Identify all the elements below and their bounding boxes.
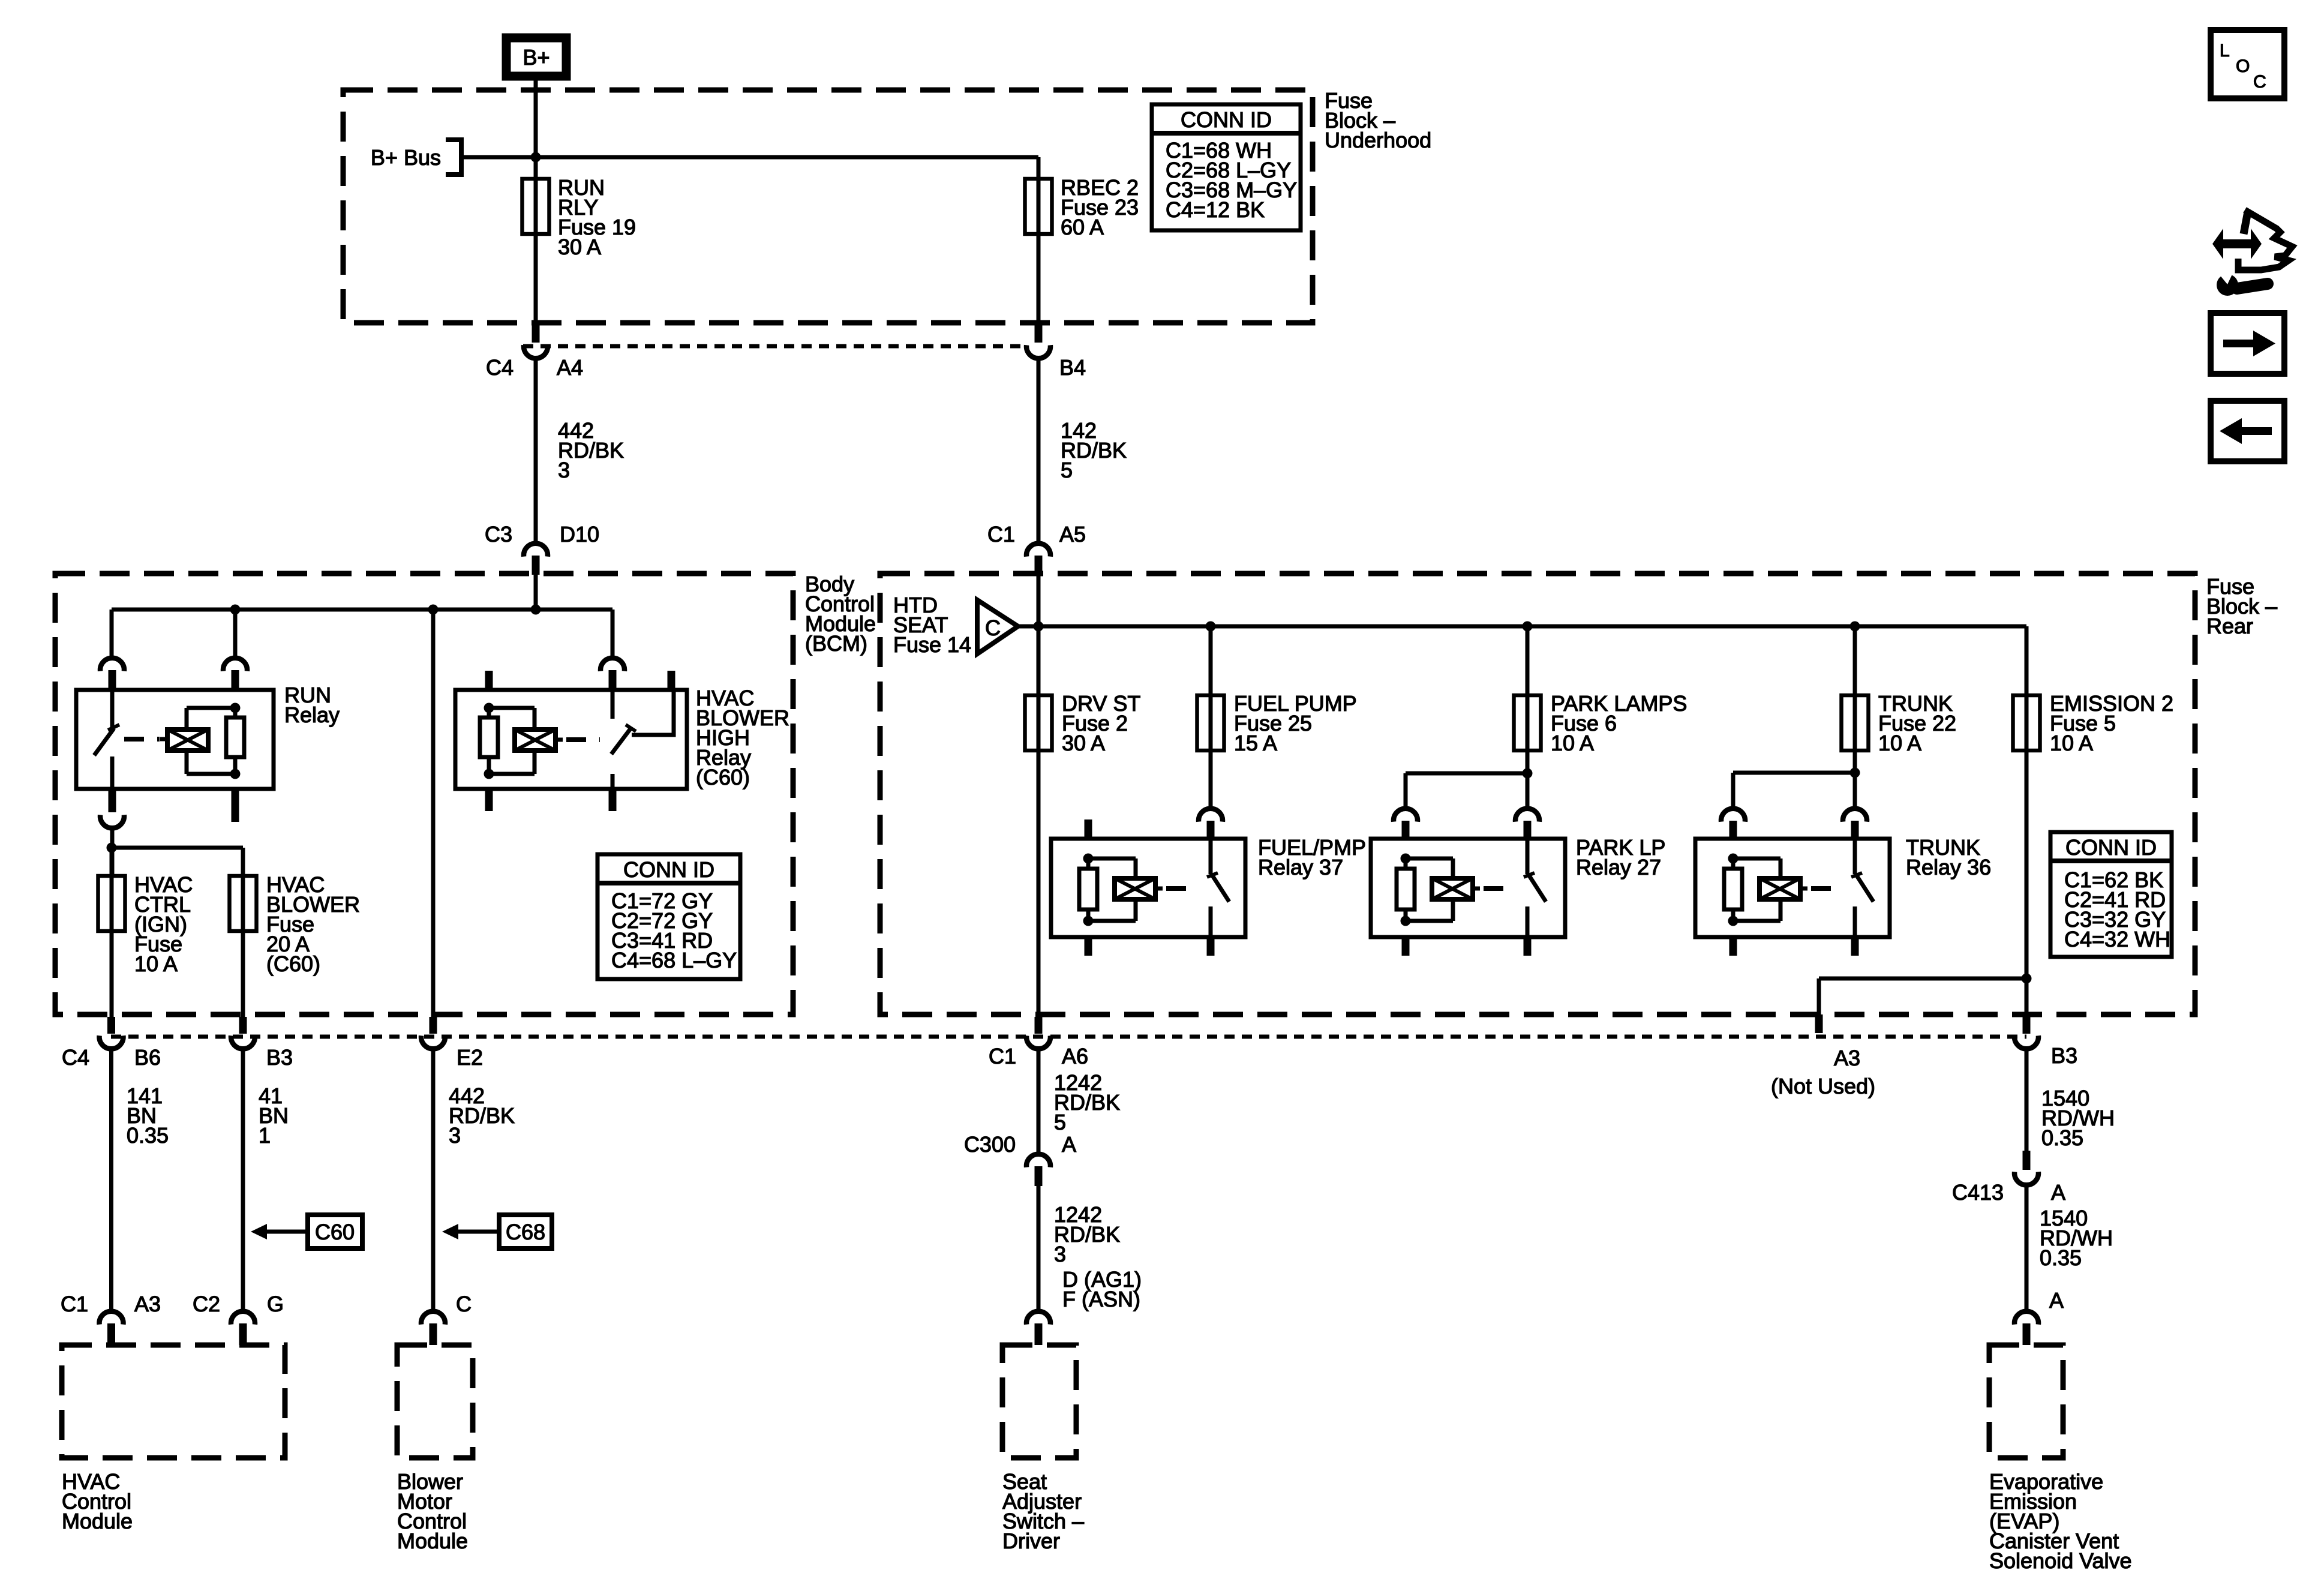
svg-text:C4=12 BK: C4=12 BK (1166, 197, 1265, 222)
svg-text:0.35: 0.35 (2041, 1125, 2083, 1150)
svg-text:CONN ID: CONN ID (2065, 835, 2157, 860)
svg-text:0.35: 0.35 (2040, 1245, 2082, 1270)
wire RUN relay to fuses (107, 827, 244, 876)
fuel relay resistor (1079, 858, 1097, 921)
blower motor control module box (397, 1345, 473, 1458)
svg-text:B+ Bus: B+ Bus (371, 145, 441, 170)
svg-text:60 A: 60 A (1061, 215, 1104, 239)
connector C4/A4 (486, 325, 583, 380)
svg-text:C300: C300 (964, 1132, 1016, 1157)
wire 142 RD/BK 5 (1038, 356, 1127, 542)
label Body Control Module (BCM) (805, 572, 876, 656)
svg-text:B3: B3 (2051, 1043, 2077, 1068)
wire 1540 RD/WH 0.35 upper (2026, 1046, 2115, 1152)
RUN relay resistor (226, 708, 244, 774)
body control module dashed box (55, 574, 793, 1014)
svg-text:Driver: Driver (1002, 1529, 1060, 1553)
HVAC relay bottom stubs (485, 789, 617, 811)
svg-text:Module: Module (62, 1509, 133, 1533)
park relay resistor (1397, 858, 1415, 921)
fuse block underhood dashed box (343, 90, 1313, 323)
label D (AG1) F (ASN) (1062, 1267, 1142, 1311)
svg-text:O: O (2236, 56, 2250, 76)
svg-text:Relay 37: Relay 37 (1258, 855, 1343, 879)
svg-text:3: 3 (558, 458, 570, 482)
connector C1/A5 (987, 522, 1086, 575)
HVAC relay resistor (480, 708, 498, 774)
svg-text:C: C (456, 1292, 472, 1316)
svg-text:0.35: 0.35 (127, 1123, 169, 1148)
svg-text:B4: B4 (1059, 355, 1086, 380)
connector E2 (421, 1017, 483, 1070)
conn id table underhood (1152, 104, 1301, 230)
wire E2 branch (431, 610, 436, 1017)
park relay coil links (1401, 854, 1454, 926)
svg-text:E2: E2 (457, 1045, 483, 1070)
svg-text:5: 5 (1054, 1110, 1066, 1134)
wire 442 RD/BK 3 (536, 356, 624, 542)
svg-text:10 A: 10 A (1551, 731, 1594, 755)
svg-text:C: C (2253, 72, 2266, 92)
svg-text:3: 3 (449, 1123, 461, 1148)
svg-text:Fuse 14: Fuse 14 (893, 632, 971, 657)
svg-text:C3: C3 (485, 522, 512, 547)
forward arrow icon (2211, 313, 2284, 374)
fuse PARK LAMPS Fuse 6 (1514, 691, 1688, 755)
label HVAC BLOWER HIGH Relay (C60) (696, 686, 789, 789)
svg-text:C60: C60 (315, 1220, 355, 1244)
park relay bottom stubs (1402, 937, 1532, 956)
svg-text:10 A: 10 A (2050, 731, 2093, 755)
svg-text:D10: D10 (560, 522, 599, 547)
fuel relay coil links (1083, 854, 1136, 926)
HVAC relay coil (515, 730, 563, 751)
wire trunk branch (1853, 626, 1857, 807)
wire 1242 RD/BK 5 (1038, 1046, 1120, 1152)
label TRUNK Relay 36 (1906, 835, 1991, 879)
svg-text:3: 3 (1054, 1242, 1066, 1266)
wire emission branch (2025, 626, 2029, 1017)
fuse TRUNK Fuse 22 (1842, 691, 1957, 755)
wire 141 BN 0.35 (112, 1046, 169, 1310)
trunk relay coil dash (1811, 886, 1842, 891)
svg-text:B+: B+ (523, 45, 550, 70)
svg-text:B3: B3 (266, 1045, 293, 1070)
connector C300/A (964, 1132, 1076, 1186)
B+ bus bracket (446, 140, 461, 175)
label HTD SEAT Fuse 14 (893, 593, 971, 657)
svg-text:1: 1 (259, 1123, 271, 1148)
svg-text:G: G (267, 1292, 284, 1316)
RUN relay bottom pins (100, 789, 239, 828)
stub A3 not used (1771, 1014, 1875, 1098)
evap solenoid box (1989, 1345, 2063, 1458)
relay PARK LP box (1371, 839, 1565, 937)
trunk relay switch (1851, 839, 1873, 937)
svg-text:C4: C4 (486, 355, 514, 380)
RUN relay pin domes (100, 658, 247, 690)
label B+ Bus (371, 145, 441, 170)
svg-text:10 A: 10 A (134, 951, 178, 976)
svg-text:C: C (985, 616, 1001, 640)
wire park branch (1526, 626, 1530, 807)
trunk relay coil links (1728, 854, 1781, 926)
svg-text:(Not Used): (Not Used) (1771, 1074, 1875, 1098)
svg-text:A: A (2049, 1288, 2064, 1313)
label Fuse Block - Underhood (1325, 88, 1431, 152)
svg-text:Solenoid Valve: Solenoid Valve (1989, 1548, 2132, 1573)
svg-text:Relay: Relay (284, 703, 340, 727)
label EVAP Canister Vent Solenoid Valve (1989, 1469, 2132, 1573)
RUN relay coil (160, 730, 208, 751)
connector arrow C60 (251, 1215, 362, 1248)
label FUEL/PMP Relay 37 (1258, 835, 1366, 879)
fuse RUN RLY Fuse 19 (523, 175, 636, 259)
connector C3/D10 (485, 522, 599, 575)
fuel relay coil dash (1166, 886, 1197, 891)
fuel relay switch (1207, 839, 1229, 937)
svg-text:5: 5 (1061, 458, 1073, 482)
label Blower Motor Control Module (397, 1469, 468, 1553)
park relay switch (1524, 839, 1546, 937)
svg-text:Relay 36: Relay 36 (1906, 855, 1991, 879)
svg-text:C1: C1 (987, 522, 1015, 547)
label pin A evap (2049, 1288, 2064, 1313)
back arrow icon (2211, 401, 2284, 461)
fuse block rear dashed box (880, 574, 2195, 1014)
svg-text:A3: A3 (134, 1292, 161, 1316)
connector B3 rear (2014, 1017, 2077, 1068)
fuse HVAC CTRL (IGN) (98, 872, 193, 976)
relay TRUNK box (1695, 839, 1890, 937)
svg-text:CONN ID: CONN ID (1181, 107, 1272, 132)
RUN relay coil links (187, 703, 241, 779)
relay HVAC BLOWER HIGH box (455, 690, 687, 789)
svg-text:C1: C1 (61, 1292, 88, 1316)
connector C4/B6 (62, 1017, 161, 1070)
svg-text:(BCM): (BCM) (805, 631, 867, 656)
wire C3 into BCM (534, 574, 538, 610)
svg-text:A6: A6 (1062, 1044, 1088, 1068)
HVAC relay switch pin dome (600, 658, 624, 690)
wire 1540 RD/WH 0.35 lower (2026, 1183, 2113, 1310)
diagnostic car-wrench icon (2212, 210, 2292, 296)
relay FUEL/PMP box (1051, 839, 1245, 937)
wire main into rear block (1037, 574, 1041, 1017)
trunk relay bottom stubs (1730, 937, 1859, 956)
svg-text:C4=68 L–GY: C4=68 L–GY (611, 948, 737, 972)
svg-text:Module: Module (397, 1529, 468, 1553)
svg-text:(C60): (C60) (696, 765, 750, 789)
wire fuse6 to relay (1406, 769, 1533, 807)
wire A3 jog (1819, 978, 2026, 1014)
trunk relay pin domes (1721, 809, 1867, 839)
park relay coil (1432, 878, 1480, 899)
connector C413/A (1952, 1151, 2065, 1205)
fuse RBEC 2 Fuse 23 (1025, 175, 1139, 239)
wire bus to RBEC fuse (1037, 157, 1041, 327)
B+ bus wire (461, 152, 1038, 163)
seat adjuster switch box (1002, 1345, 1076, 1458)
svg-text:C4: C4 (62, 1045, 89, 1070)
trunk relay coil (1759, 878, 1807, 899)
conn id table BCM (597, 854, 740, 979)
wire fuse5 down (2022, 974, 2032, 984)
fuel relay pin dome (1085, 809, 1223, 839)
svg-text:C4=32 WH: C4=32 WH (2064, 927, 2170, 951)
connector evap valve (2014, 1311, 2038, 1345)
svg-text:Relay 27: Relay 27 (1576, 855, 1661, 879)
label HVAC Control Module (62, 1469, 133, 1533)
svg-text:A: A (1062, 1132, 1076, 1157)
svg-text:A: A (2051, 1180, 2065, 1205)
svg-text:Rear: Rear (2206, 614, 2253, 638)
fuse EMISSION 2 Fuse 5 (2013, 691, 2174, 755)
park relay coil dash (1484, 886, 1515, 891)
connector C2/G (193, 1292, 284, 1345)
HVAC relay dead pins (485, 671, 675, 690)
connector C1/A6 (989, 1017, 1088, 1068)
wire fuel pump branch (1209, 626, 1213, 807)
svg-text:A4: A4 (557, 355, 583, 380)
wire fuse22 to relay (1733, 768, 1860, 807)
label Fuse Block - Rear (2206, 574, 2277, 638)
svg-text:C68: C68 (506, 1220, 545, 1244)
wire fuses to BCM bottom (112, 848, 243, 1017)
fuse DRV ST Fuse 2 (1025, 691, 1141, 755)
wire 41 BN 1 (243, 1046, 289, 1310)
svg-text:30 A: 30 A (558, 235, 601, 259)
connector C blower (421, 1292, 472, 1345)
HVAC control module box (62, 1345, 285, 1458)
label Seat Adjuster Switch - Driver (1002, 1469, 1084, 1553)
label RUN Relay (284, 683, 340, 727)
fuse HVAC BLOWER (230, 872, 361, 976)
svg-text:10 A: 10 A (1878, 731, 1921, 755)
svg-text:15 A: 15 A (1234, 731, 1277, 755)
wire 442 RD/BK 3 lower (433, 1046, 515, 1310)
fuse FUEL PUMP Fuse 25 (1197, 691, 1357, 755)
fuel relay coil (1115, 878, 1163, 899)
connector B3 bcm (231, 1017, 293, 1070)
LOC locator icon (2211, 30, 2284, 98)
HVAC relay coil dash (566, 737, 600, 742)
connector dashed line bottom (111, 1035, 2026, 1039)
svg-text:(C60): (C60) (266, 951, 320, 976)
connector arrow C68 (442, 1215, 552, 1248)
HTD SEAT triangle (977, 600, 1018, 654)
RUN relay switch (94, 690, 119, 789)
svg-text:C2: C2 (193, 1292, 220, 1316)
wire B+ to bus (534, 76, 538, 327)
BCM internal bus (112, 605, 612, 656)
connector B4 (1026, 325, 1086, 380)
svg-text:CONN ID: CONN ID (623, 857, 714, 882)
svg-text:C1: C1 (989, 1044, 1016, 1068)
HVAC relay switch (611, 690, 674, 789)
svg-text:30 A: 30 A (1062, 731, 1105, 755)
svg-text:L: L (2220, 41, 2230, 61)
conn id table rear (2050, 832, 2172, 957)
B+ power symbol (506, 38, 566, 76)
relay RUN box (76, 690, 274, 789)
connector seat switch (1026, 1311, 1050, 1345)
svg-text:F (ASN): F (ASN) (1062, 1287, 1140, 1311)
park relay pin domes (1394, 809, 1539, 839)
connector dashed line C4-B4 (523, 344, 1027, 349)
svg-text:C413: C413 (1952, 1180, 2004, 1205)
svg-text:B6: B6 (134, 1045, 161, 1070)
wire 1242 RD/BK 3 (1038, 1186, 1120, 1310)
svg-text:A5: A5 (1059, 522, 1086, 547)
label PARK LP Relay 27 (1576, 835, 1665, 879)
rear bus (1016, 622, 2026, 632)
connector C1/A3 (61, 1292, 161, 1345)
HVAC relay coil links (484, 703, 535, 779)
svg-text:A3: A3 (1834, 1046, 1860, 1070)
svg-text:Underhood: Underhood (1325, 128, 1431, 152)
trunk relay resistor (1724, 858, 1742, 921)
fuel relay bottom stubs (1085, 937, 1215, 956)
RUN relay coil dash (124, 737, 160, 742)
